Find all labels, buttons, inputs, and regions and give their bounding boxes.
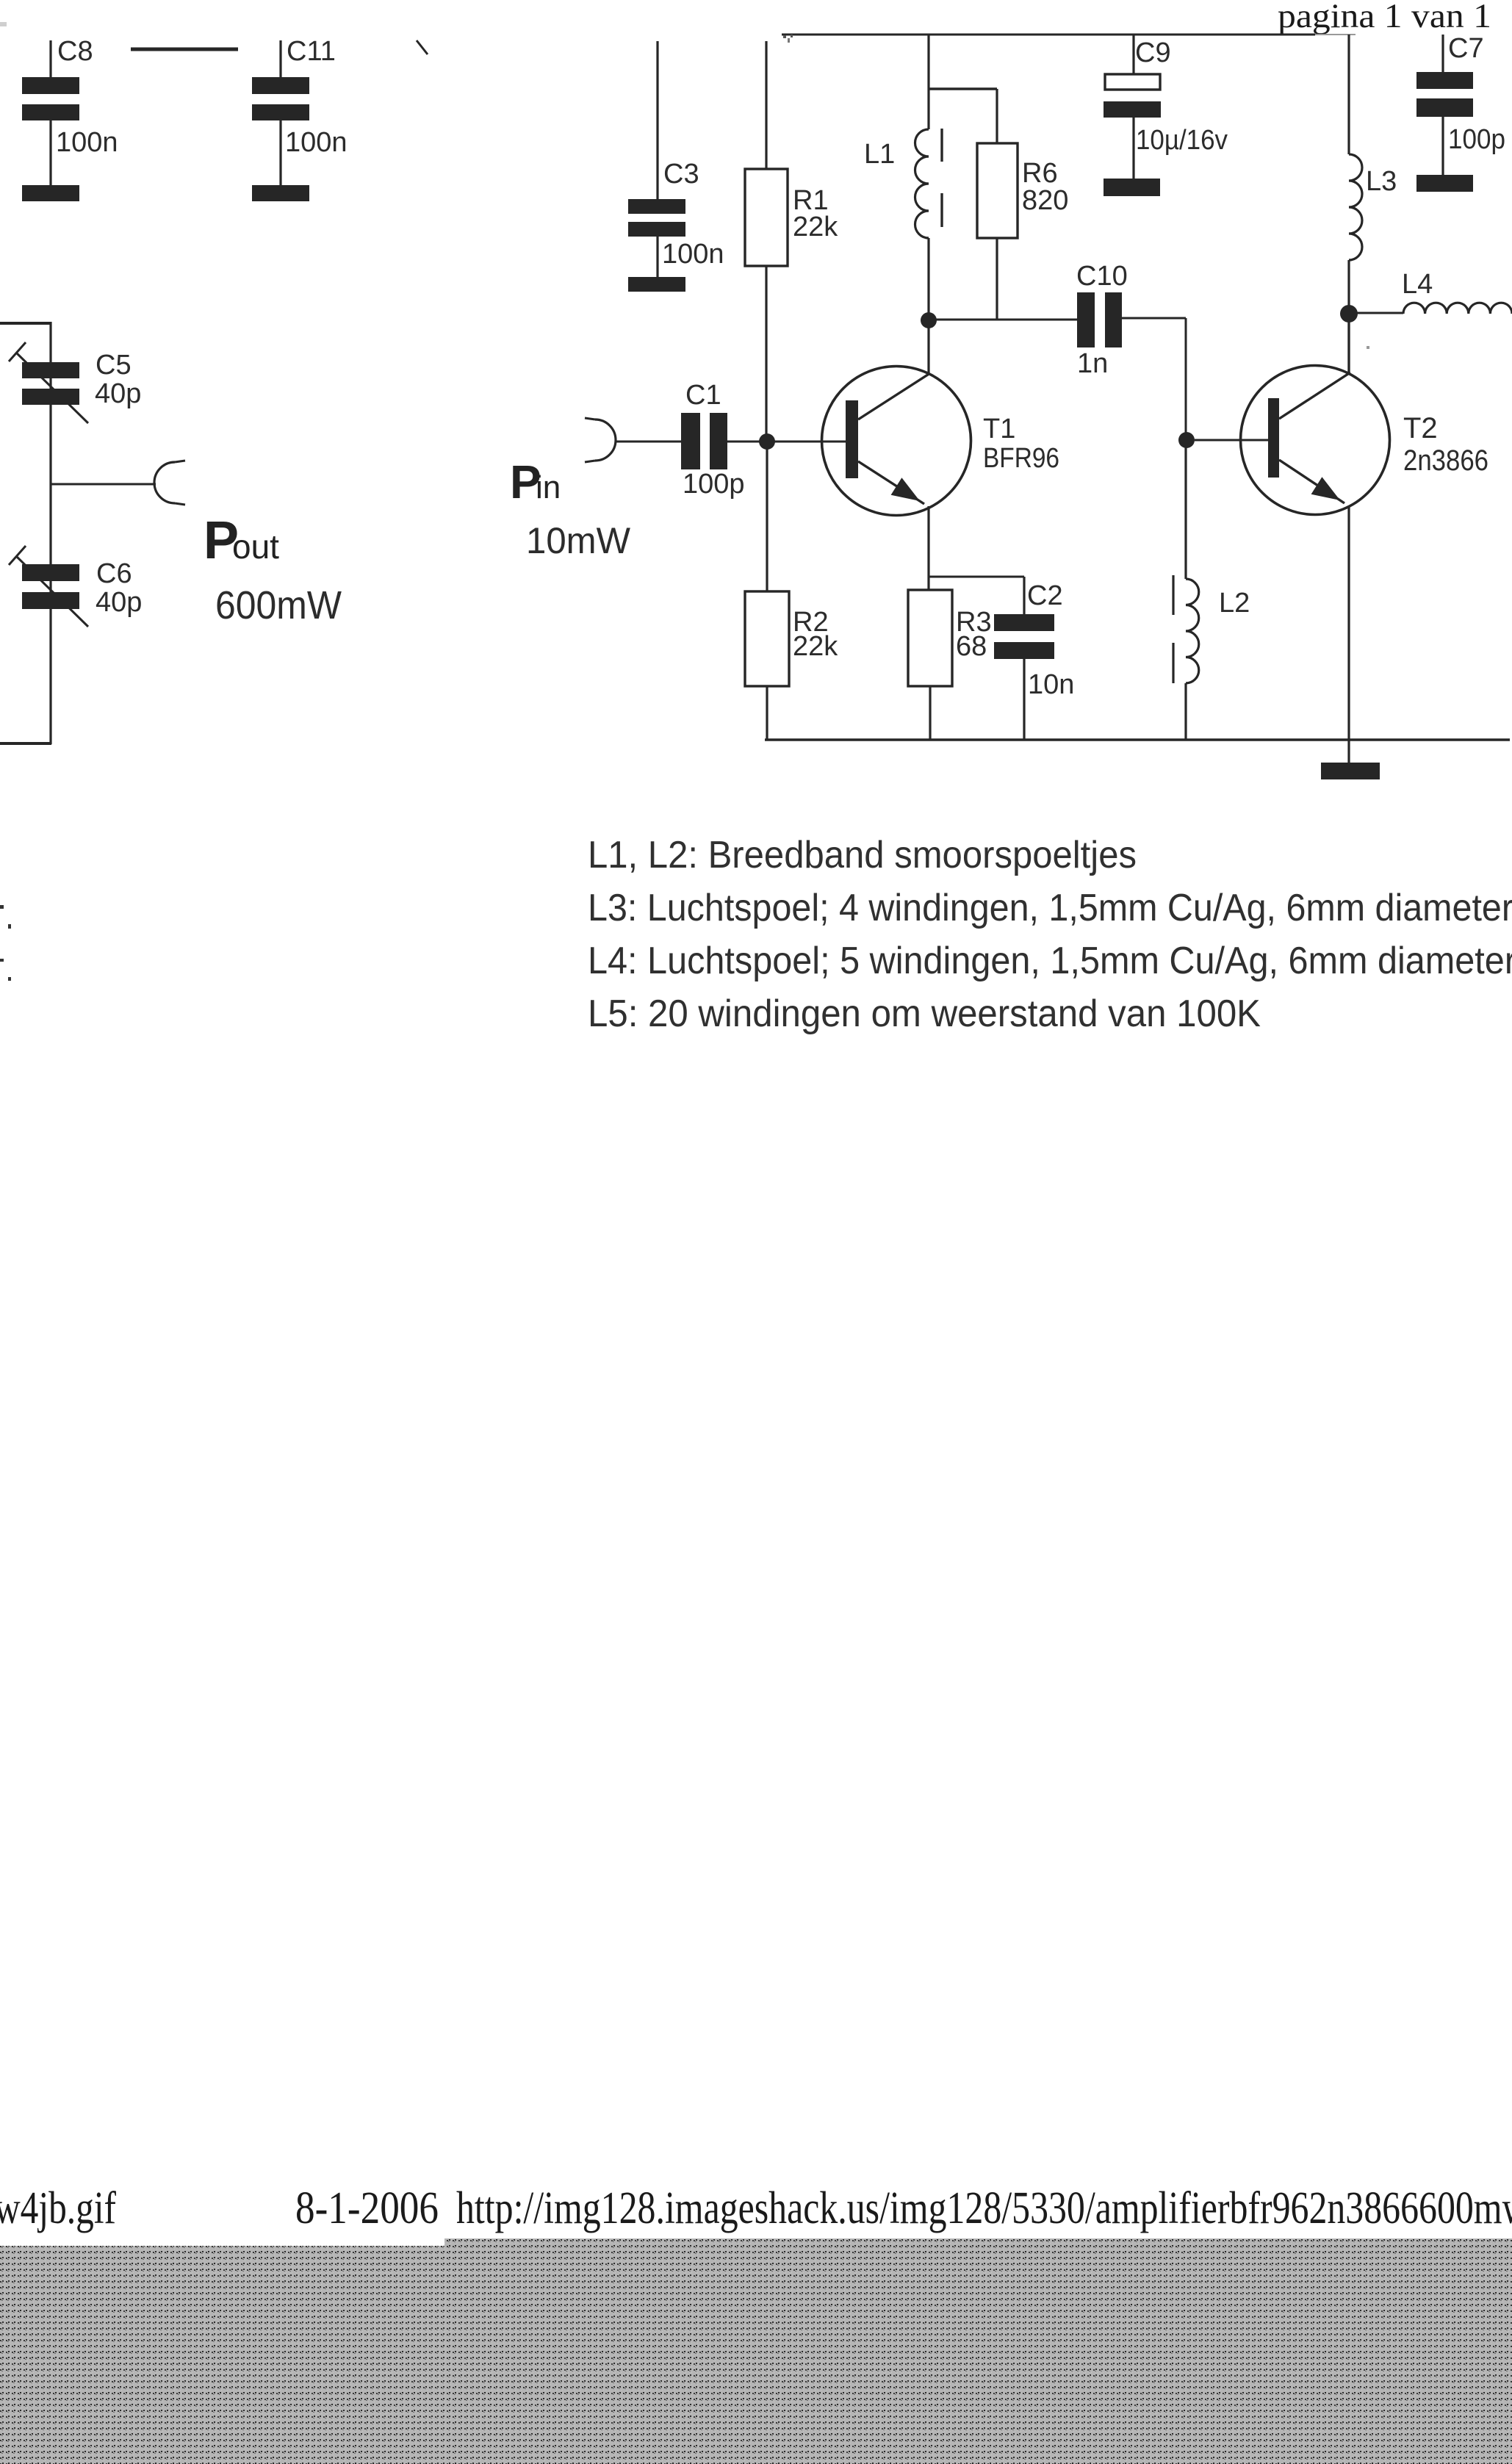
svg-text:L3: Luchtspoel; 4 windingen, 1: L3: Luchtspoel; 4 windingen, 1,5mm Cu/Ag… [588,887,1512,929]
svg-text:600mW: 600mW [215,583,342,627]
svg-text:40p: 40p [96,587,142,618]
svg-text:BFR96: BFR96 [983,443,1059,474]
svg-text:in: in [536,469,561,505]
svg-text:8-1-2006: 8-1-2006 [295,2183,439,2233]
svg-text:C2: C2 [1027,580,1063,611]
svg-text:L4: Luchtspoel; 5 windingen, 1: L4: Luchtspoel; 5 windingen, 1,5mm Cu/Ag… [588,940,1512,982]
svg-text:L3: L3 [1366,166,1397,197]
svg-text:2n3866: 2n3866 [1403,444,1488,477]
svg-text:100n: 100n [285,127,348,158]
svg-text:C5: C5 [96,350,132,381]
svg-text:w4jb.gif: w4jb.gif [0,2183,116,2233]
svg-text:C7: C7 [1448,33,1484,64]
svg-text:100n: 100n [662,239,724,270]
svg-text:L1: L1 [864,139,895,170]
svg-text:pagina 1 van 1: pagina 1 van 1 [1278,0,1491,35]
svg-text:L1, L2: Breedband smoorspoeltj: L1, L2: Breedband smoorspoeltjes [588,834,1137,876]
svg-text:22k: 22k [793,212,838,242]
svg-text:L4: L4 [1402,269,1433,300]
svg-text:100p: 100p [683,469,745,500]
svg-text:1n: 1n [1077,348,1108,379]
svg-text:C3: C3 [663,159,699,190]
svg-text:100n: 100n [56,127,118,158]
svg-text:22k: 22k [793,631,838,662]
svg-text:C8: C8 [57,36,93,67]
svg-text:40p: 40p [95,378,141,409]
svg-text:C1: C1 [685,380,721,411]
svg-text:L5: 20 windingen om weerstand: L5: 20 windingen om weerstand van 100K [588,993,1261,1035]
svg-text:10mW: 10mW [526,520,631,561]
svg-text:http://img128.imageshack.us/im: http://img128.imageshack.us/img128/5330/… [456,2183,1512,2233]
svg-text:C9: C9 [1135,37,1171,68]
svg-text:100p: 100p [1448,124,1505,155]
svg-text:C6: C6 [96,558,132,589]
svg-text:820: 820 [1022,185,1068,216]
svg-text:C11: C11 [287,36,336,67]
svg-text:C10: C10 [1076,261,1128,292]
svg-text:10µ/16v: 10µ/16v [1136,125,1228,156]
svg-text:out: out [232,527,279,566]
svg-text:10n: 10n [1028,669,1074,700]
svg-text:R6: R6 [1022,158,1058,189]
svg-text:68: 68 [956,631,987,662]
svg-text:L2: L2 [1219,588,1250,619]
svg-text:T2: T2 [1403,412,1438,444]
svg-text:T1: T1 [983,414,1015,444]
